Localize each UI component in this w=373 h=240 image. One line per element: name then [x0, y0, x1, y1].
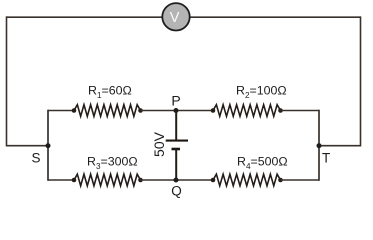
resistor R3 left terminal dot — [72, 178, 77, 183]
wire left bus vertical (S node bus) — [47, 110, 49, 181]
wire battery top lead (P down to plate) — [175, 111, 177, 141]
node P junction dot — [174, 108, 179, 113]
battery long plate (top) — [166, 140, 188, 142]
wire bottom branch: left bus to R3 — [48, 179, 74, 181]
svg-text:V: V — [170, 10, 180, 26]
svg-text:S: S — [32, 150, 41, 165]
svg-text:R3=300Ω: R3=300Ω — [87, 155, 138, 171]
resistor R2 zigzag — [213, 105, 281, 117]
wire top branch: R2 to right bus — [281, 110, 320, 112]
resistor R3 zigzag — [74, 174, 141, 186]
svg-text:50V: 50V — [151, 131, 167, 157]
wire top branch: left bus to R1 — [48, 110, 74, 112]
battery B1 (50V) between P and Q — [166, 111, 188, 181]
wire right bus vertical (T node bus) — [318, 110, 320, 181]
wire bottom branch: R4 to right bus — [281, 179, 320, 181]
wire top branch: R1 to R2 through node P — [141, 110, 214, 112]
node Q junction dot — [174, 178, 179, 183]
node T junction dot — [317, 143, 322, 148]
svg-text:Q: Q — [171, 184, 182, 199]
wire right outer vertical — [360, 16, 362, 146]
svg-text:R2=100Ω: R2=100Ω — [236, 84, 287, 100]
wire top-right from voltmeter to outer loop corner — [190, 16, 361, 18]
resistor R1 left terminal dot — [72, 108, 77, 113]
wire left outer vertical — [6, 16, 8, 146]
svg-text:P: P — [171, 93, 180, 109]
resistor R4 left terminal dot — [211, 178, 216, 183]
wire T connector (node T to right outer) — [319, 145, 361, 147]
wire battery bottom lead (plate down to Q) — [175, 150, 177, 180]
wire S connector (left outer to node S) — [7, 145, 49, 147]
battery short plate (bottom) — [172, 148, 181, 151]
svg-text:T: T — [322, 151, 330, 166]
node S junction dot — [46, 143, 51, 148]
wire top-left from outer loop corner to voltmeter — [7, 16, 163, 18]
resistor R4 right terminal dot — [278, 178, 283, 183]
resistor R1 zigzag — [74, 105, 141, 117]
resistor R2 left terminal dot — [211, 108, 216, 113]
resistor R2 right terminal dot — [278, 108, 283, 113]
resistor R3 right terminal dot — [138, 178, 143, 183]
voltmeter U1 (V) — [162, 3, 189, 30]
svg-text:R1=60Ω: R1=60Ω — [88, 84, 132, 100]
svg-text:R4=500Ω: R4=500Ω — [237, 155, 288, 171]
resistor R1 right terminal dot — [138, 108, 143, 113]
wire bottom branch: R3 to R4 through node Q — [141, 179, 214, 181]
resistor R4 zigzag — [213, 174, 281, 186]
